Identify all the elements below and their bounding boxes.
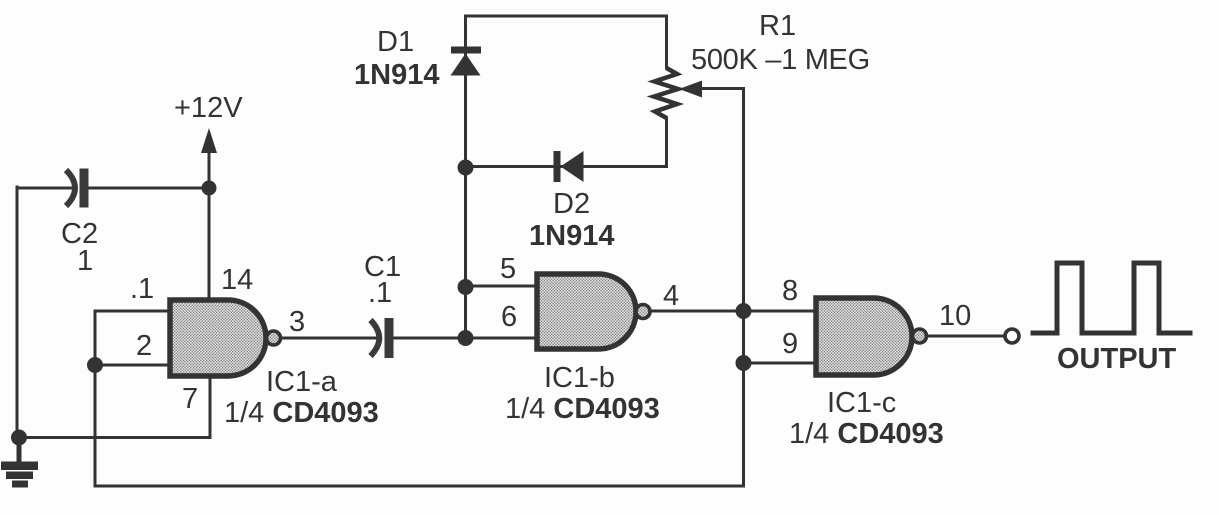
wire pin 2 input horizontal [95, 364, 172, 367]
ground [1, 437, 38, 488]
node junction ground [11, 430, 27, 446]
svg-text:1N914: 1N914 [529, 220, 614, 252]
svg-text:1/4 CD4093: 1/4 CD4093 [224, 397, 379, 429]
wire feedback bottom horizontal [95, 485, 744, 488]
svg-text:IC1-a: IC1-a [266, 366, 338, 398]
svg-text:5: 5 [500, 253, 516, 285]
svg-text:IC1-c: IC1-c [827, 387, 896, 419]
svg-text:10: 10 [939, 300, 971, 332]
R1 wiper arrow [679, 81, 702, 98]
svg-text:.1: .1 [368, 277, 392, 309]
power +12V arrow [201, 128, 217, 153]
output waveform symbol [1033, 263, 1190, 333]
resistor R1 potentiometer zigzag [654, 68, 678, 118]
wire pin 10 output to terminal [927, 335, 1005, 338]
capacitor C1 [371, 318, 394, 358]
wire pin 1 stub vertical [94, 311, 97, 365]
node junction pin 5 [458, 279, 474, 295]
svg-text:OUTPUT: OUTPUT [1057, 343, 1177, 375]
op-amp U1 nand gate IC1-a [170, 300, 281, 376]
output terminal open circle [1005, 329, 1019, 343]
node junction at +12V rail [202, 181, 217, 196]
wire R1 top lead [665, 16, 668, 68]
svg-text:4: 4 [663, 280, 679, 312]
wire node A vertical (top wire through D1 down to pin 6 node) [464, 16, 467, 338]
wire C1 to pin 6 [393, 337, 539, 340]
node junction pin2 left [87, 357, 103, 373]
wire feedback right vertical [742, 89, 745, 487]
nand gate IC1-c [816, 298, 927, 375]
wire middle loop horizontal with D2 [466, 165, 667, 168]
svg-text:D2: D2 [553, 188, 590, 220]
wire top loop horizontal [466, 15, 667, 18]
capacitor C2 [66, 169, 89, 208]
svg-text:7: 7 [182, 383, 198, 415]
wire feedback left vertical [94, 365, 97, 486]
svg-text:1N914: 1N914 [354, 59, 439, 91]
wire pin 3 output to C1 [281, 337, 377, 340]
wire +12V arrow stem [208, 142, 211, 188]
svg-text:6: 6 [501, 301, 517, 333]
svg-text:.1: .1 [130, 273, 154, 305]
svg-text:R1: R1 [759, 10, 796, 42]
wire pin 4 output to pin 8 [650, 310, 817, 313]
wire pin 7 vertical [209, 375, 212, 438]
svg-text:1/4 CD4093: 1/4 CD4093 [789, 418, 944, 450]
svg-text:D1: D1 [377, 26, 414, 58]
diode D2 [554, 151, 584, 182]
svg-text:8: 8 [782, 275, 798, 307]
node junction pin 9 [736, 355, 752, 371]
node junction pin 6 [458, 330, 474, 346]
nand gate IC1-b [537, 274, 650, 349]
wire pin 9 horizontal [744, 362, 818, 365]
node junction pin 8 [736, 303, 752, 319]
wire C2 to +12V junction [89, 187, 209, 190]
wire left vertical rail [16, 187, 19, 438]
wire top-left horizontal to C2 [17, 187, 73, 190]
svg-text:2: 2 [136, 330, 152, 362]
node A junction (D1/D2) [458, 160, 474, 176]
svg-text:3: 3 [289, 306, 305, 338]
wire pin 1 input horizontal [95, 310, 172, 313]
svg-text:1: 1 [77, 245, 93, 277]
svg-text:IC1-b: IC1-b [544, 362, 615, 394]
svg-text:14: 14 [221, 264, 253, 296]
wire pin 5 horizontal [466, 285, 540, 288]
svg-text:500K –1 MEG: 500K –1 MEG [691, 44, 870, 76]
svg-text:+12V: +12V [174, 92, 243, 124]
diode D1 [451, 47, 482, 76]
wire R1 wiper horizontal [698, 87, 744, 90]
wire ground horizontal [17, 436, 210, 439]
wire R1 bottom lead and corner [665, 118, 668, 167]
svg-text:1/4 CD4093: 1/4 CD4093 [505, 393, 660, 425]
svg-text:9: 9 [782, 328, 798, 360]
wire +12V junction down to pin 14 [208, 188, 211, 302]
